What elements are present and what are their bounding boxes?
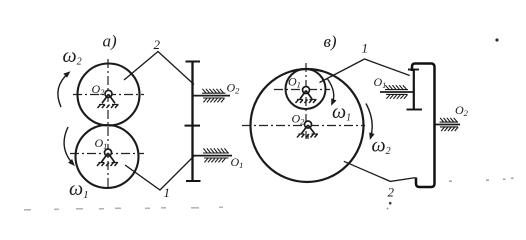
svg-text:O1: O1 [231,155,244,170]
svg-text:O2: O2 [227,81,241,96]
svg-text:1: 1 [164,185,171,200]
svg-text:a): a) [103,32,118,51]
svg-text:ω1: ω1 [69,178,89,201]
svg-text:O2: O2 [292,112,306,127]
svg-text:O1: O1 [374,75,387,90]
svg-text:ω2: ω2 [372,135,391,158]
svg-text:в): в) [324,32,337,51]
svg-text:1: 1 [362,41,369,56]
svg-text:2: 2 [154,37,161,52]
svg-text:ω2: ω2 [63,45,82,68]
svg-text:O2: O2 [455,103,469,118]
svg-text:O1: O1 [95,136,108,151]
svg-text:ω1: ω1 [332,101,351,124]
svg-text:O1: O1 [288,75,301,90]
svg-text:O2: O2 [92,82,106,97]
svg-text:2: 2 [388,185,395,200]
